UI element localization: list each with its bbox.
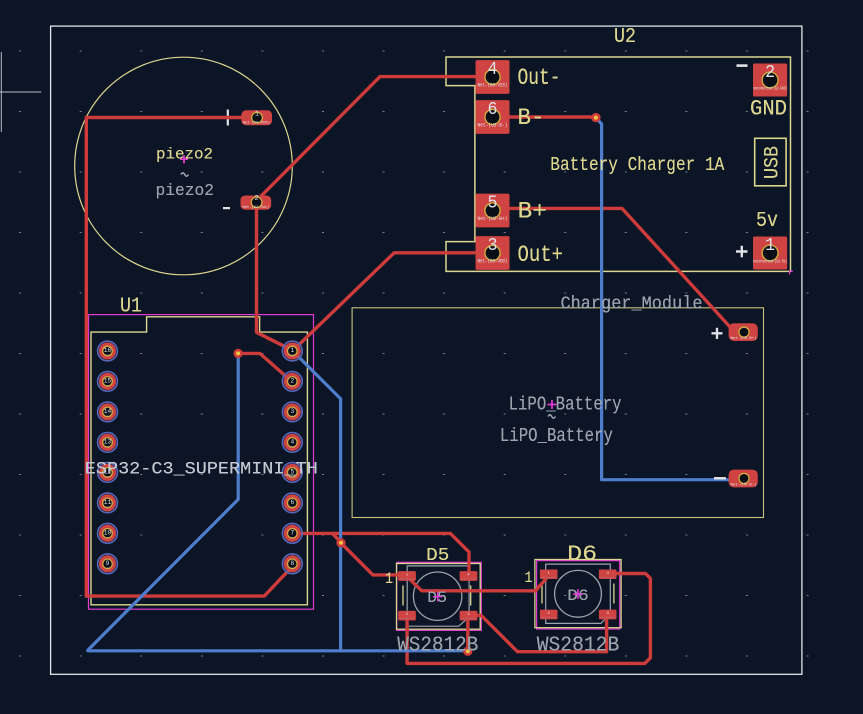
svg-text:Net-(D6-VSS): Net-(D6-VSS) (542, 616, 556, 619)
svg-text:net: net (290, 415, 295, 418)
U2 pad2 minus marker (737, 64, 748, 67)
page frame (51, 26, 802, 674)
U1 pad 3 (282, 402, 302, 422)
svg-text:Net-(D5-VSS): Net-(D5-VSS) (400, 617, 414, 620)
svg-text:unconnected-(U2-5v): unconnected-(U2-5v) (753, 260, 787, 265)
svg-text:1: 1 (255, 111, 259, 119)
svg-text:Net-(D6-DIN): Net-(D6-DIN) (542, 576, 556, 579)
battery plus pad (729, 323, 758, 341)
U1 pad 2 (282, 372, 302, 392)
svg-text:U2: U2 (614, 26, 636, 49)
wire U2 B+ to battery plus pad (492, 208, 744, 332)
battery plus marker (712, 328, 723, 339)
U1 pad 7 (282, 523, 302, 543)
svg-text:piezo2: piezo2 (156, 182, 215, 201)
LED D6 lens circle (555, 570, 602, 617)
wire U1 pad1 loop down (back copper) (293, 351, 341, 651)
U2 pad 2 (753, 63, 787, 96)
via C (233, 349, 242, 358)
U1 pad 6 (282, 493, 302, 513)
U2 pad 1 (753, 236, 787, 269)
svg-text:net: net (290, 384, 295, 387)
LED D6 courtyard (537, 561, 620, 629)
LED D5 courtyard (397, 562, 482, 630)
svg-text:Net-(D6-DOUT): Net-(D6-DOUT) (601, 616, 615, 619)
svg-text:net: net (106, 506, 111, 509)
LED D5 lens circle (413, 572, 461, 620)
svg-text:3: 3 (488, 236, 498, 256)
piezo2 tilde (181, 173, 188, 176)
svg-text:4: 4 (488, 60, 498, 80)
piezo2 anchor (180, 155, 188, 163)
battery plus marker (712, 328, 723, 339)
via A (591, 113, 600, 122)
wire U2 Out+ to U1 pad1 (293, 253, 492, 351)
svg-text:Net-(D5-DIN): Net-(D5-DIN) (400, 578, 414, 581)
LED D5 silk side ticks (403, 586, 471, 606)
LED D6 silk outline (535, 560, 621, 628)
D5 pad 1 (398, 571, 416, 581)
U1 pad 12 (98, 463, 118, 483)
svg-text:Net-(U2-B-): Net-(U2-B-) (478, 123, 508, 129)
svg-text:net: net (106, 445, 111, 448)
svg-text:ESP32-C3_SUPERMINI_TH: ESP32-C3_SUPERMINI_TH (85, 460, 318, 480)
wire U1 pad7 to D5 pad4 (292, 533, 469, 575)
battery minus marker (714, 477, 726, 479)
svg-text:USB: USB (762, 146, 785, 179)
svg-text:Out-: Out- (518, 65, 561, 91)
U1 pad 13 (98, 433, 118, 453)
svg-text:WS2812B: WS2812B (537, 633, 620, 657)
svg-text:net: net (290, 445, 295, 448)
U1 pad 11 (98, 493, 118, 513)
svg-text:1: 1 (765, 236, 775, 256)
U1 pad 1 (282, 341, 302, 361)
D6 pad 2 (540, 610, 558, 620)
D5 pad 4 (460, 571, 478, 581)
U2 pad 4 (476, 60, 510, 94)
U1 pad 10 (98, 523, 118, 543)
piezo piezo2 outline circle (75, 57, 293, 275)
U1 pad 7 (282, 523, 302, 543)
battery anchor (548, 400, 557, 409)
D6 anchor (573, 589, 582, 598)
LED D5 fab outline (407, 566, 469, 626)
U2 pad1 plus marker (736, 246, 748, 257)
D6 pad 3 (599, 610, 617, 620)
wire piezo+ net: pad1 left, down, bottom, to U1 pad9 (86, 118, 292, 597)
U2 pad 3 (476, 236, 510, 270)
U1 pad 8 (282, 554, 302, 574)
module U1 outline (91, 317, 307, 605)
svg-text:net: net (290, 506, 295, 509)
U2 pad 1 (753, 236, 787, 269)
U1 pad 5 (282, 463, 302, 483)
svg-text:D5: D5 (426, 545, 449, 566)
U1 pad 9 (98, 554, 118, 574)
svg-text:Net-(D5-VDD): Net-(D5-VDD) (462, 578, 476, 581)
battery minus marker (714, 477, 726, 479)
U1 pad 6 (282, 493, 302, 513)
piezo2 pad 1 (241, 110, 272, 125)
U1 pad 5 (282, 463, 302, 483)
svg-text:Net-(D5-VSS): Net-(D5-VSS) (478, 83, 508, 89)
U1 pad 4 (282, 433, 302, 453)
U2 pad 6 (476, 100, 510, 134)
wire via A to battery minus pad (back copper) (596, 118, 740, 480)
svg-text:D6: D6 (567, 542, 597, 567)
svg-text:Net-(D5-VDD): Net-(D5-VDD) (243, 121, 270, 126)
svg-text:Charger_Module: Charger_Module (561, 293, 703, 314)
U2 pad 2 (753, 63, 787, 96)
U1 pad 14 (98, 402, 118, 422)
svg-text:5v: 5v (756, 210, 778, 233)
module U2 outline (446, 57, 791, 271)
<!-- U2 pad 4 (476, 60, 510, 94)
svg-text:5: 5 (488, 194, 498, 214)
wire via C down to via E (back copper) (88, 354, 468, 651)
svg-text:Net-(U2-Out): Net-(U2-Out) (243, 205, 270, 210)
LED D5 silk outline (397, 564, 481, 630)
LED D6 fab outline (546, 564, 611, 623)
wire D5 pad2 loop to D6 pad4 (407, 574, 650, 664)
svg-text:net: net (106, 354, 111, 357)
wire U2 B- to via A (493, 115, 596, 118)
svg-text:GND: GND (750, 96, 787, 122)
D6 pad 3 (599, 610, 617, 620)
D6 pad 4 (599, 570, 617, 580)
battery tilde (548, 415, 555, 418)
svg-text:WS2812B: WS2812B (397, 634, 478, 658)
svg-text:Battery Charger 1A: Battery Charger 1A (550, 154, 724, 176)
wire piezo- down to U1 pad1 (257, 202, 292, 350)
module U1 courtyard (89, 315, 314, 610)
D5 pad 3 (460, 611, 478, 621)
svg-text:net: net (290, 354, 295, 357)
svg-text:B+: B+ (518, 198, 548, 224)
svg-text:2: 2 (254, 195, 258, 203)
U1 pad 13 (98, 433, 118, 453)
D5 pad 1 (398, 571, 416, 581)
svg-text:Net-(D6-VDD): Net-(D6-VDD) (601, 576, 615, 579)
piezo2 tilde (181, 173, 188, 176)
D6 anchor (573, 589, 582, 598)
piezo2 pad 2 (241, 195, 272, 210)
wire via C to U1 pad2 (238, 353, 291, 380)
U2 pad 6 (476, 100, 510, 134)
svg-text:unconnected-(U2-GND): unconnected-(U2-GND) (753, 87, 787, 92)
wire D5 pad3 to D6 pad3 (468, 615, 607, 652)
via E (463, 647, 472, 656)
D5 pad 2 (398, 611, 416, 621)
wire piezo- to U2 Out- pad4 (257, 77, 493, 201)
D5 pad 2 (398, 611, 416, 621)
D5 anchor (433, 592, 442, 601)
svg-text:net: net (290, 536, 295, 539)
svg-text:2: 2 (765, 63, 775, 83)
D5 pad 3 (460, 611, 478, 621)
svg-text:Net-(D5-DOUT): Net-(D5-DOUT) (462, 617, 476, 620)
U1 pad 15 (98, 372, 118, 392)
U2 pad 5 (476, 194, 510, 228)
U1 pad 12 (98, 463, 118, 483)
origin crosshair (0, 52, 41, 132)
svg-text:6: 6 (488, 100, 498, 120)
svg-text:Out+: Out+ (518, 242, 564, 268)
U1 pad 16 (98, 341, 118, 361)
U1 pad 2 (282, 372, 302, 392)
svg-text:1: 1 (385, 570, 393, 588)
U1 pad 11 (98, 493, 118, 513)
LED D6 silk side ticks (542, 584, 614, 604)
battery anchor (548, 400, 557, 409)
svg-text:Net-(U2-B-): Net-(U2-B-) (731, 482, 757, 487)
svg-text:U1: U1 (120, 296, 142, 319)
U1 pad 9 (98, 554, 118, 574)
piezo2 plus marker (220, 110, 236, 126)
battery minus pad (729, 470, 758, 488)
svg-text:net: net (106, 566, 111, 569)
wire via D to D5 pad1 (341, 543, 407, 575)
svg-text:Net-(U2-B+): Net-(U2-B+) (731, 336, 757, 341)
svg-text:net: net (106, 415, 111, 418)
svg-text:net: net (290, 566, 295, 569)
U1 pad 14 (98, 402, 118, 422)
wire stub to via D (333, 533, 342, 542)
svg-text:net: net (106, 536, 111, 539)
D5 anchor (433, 592, 442, 601)
U1 pad 1 (282, 341, 302, 361)
svg-text:1: 1 (525, 569, 533, 587)
U2 courtyard tick (790, 271, 794, 274)
U2 pad 3 (476, 236, 510, 270)
svg-text:net: net (106, 384, 111, 387)
U2 USB connector box (755, 138, 786, 186)
D6 pad 1 (540, 570, 558, 580)
via D (336, 538, 345, 547)
wire D5 pad1 to D6 pad1 (407, 576, 548, 591)
piezo2 minus marker (223, 207, 230, 209)
battery minus pad (729, 470, 758, 488)
battery plus pad (729, 323, 758, 341)
wire D5 pad3 to via E (466, 616, 469, 652)
U1 pad 8 (282, 554, 302, 574)
U1 pad 15 (98, 372, 118, 392)
D6 pad 4 (599, 570, 617, 580)
U1 pad 3 (282, 402, 302, 422)
piezo2 anchor (180, 155, 188, 163)
svg-text:B-: B- (518, 105, 545, 131)
piezo2 pad 2 (241, 195, 272, 210)
piezo2 pad 1 (241, 110, 272, 125)
U2 pad 5 (476, 194, 510, 228)
U1 pad 16 (98, 341, 118, 361)
battery BT1 outline (352, 308, 763, 518)
svg-text:Net-(U2-B+): Net-(U2-B+) (478, 216, 508, 222)
D6 pad 2 (540, 610, 558, 620)
svg-text:LiPO_Battery: LiPO_Battery (500, 425, 613, 447)
svg-text:Net-(D5-VDD): Net-(D5-VDD) (478, 259, 508, 265)
U1 pad 4 (282, 433, 302, 453)
D5 pad 4 (460, 571, 478, 581)
battery tilde (548, 415, 555, 418)
U1 pad 10 (98, 523, 118, 543)
svg-text:LiPO_Battery: LiPO_Battery (509, 393, 622, 415)
D6 pad 1 (540, 570, 558, 580)
